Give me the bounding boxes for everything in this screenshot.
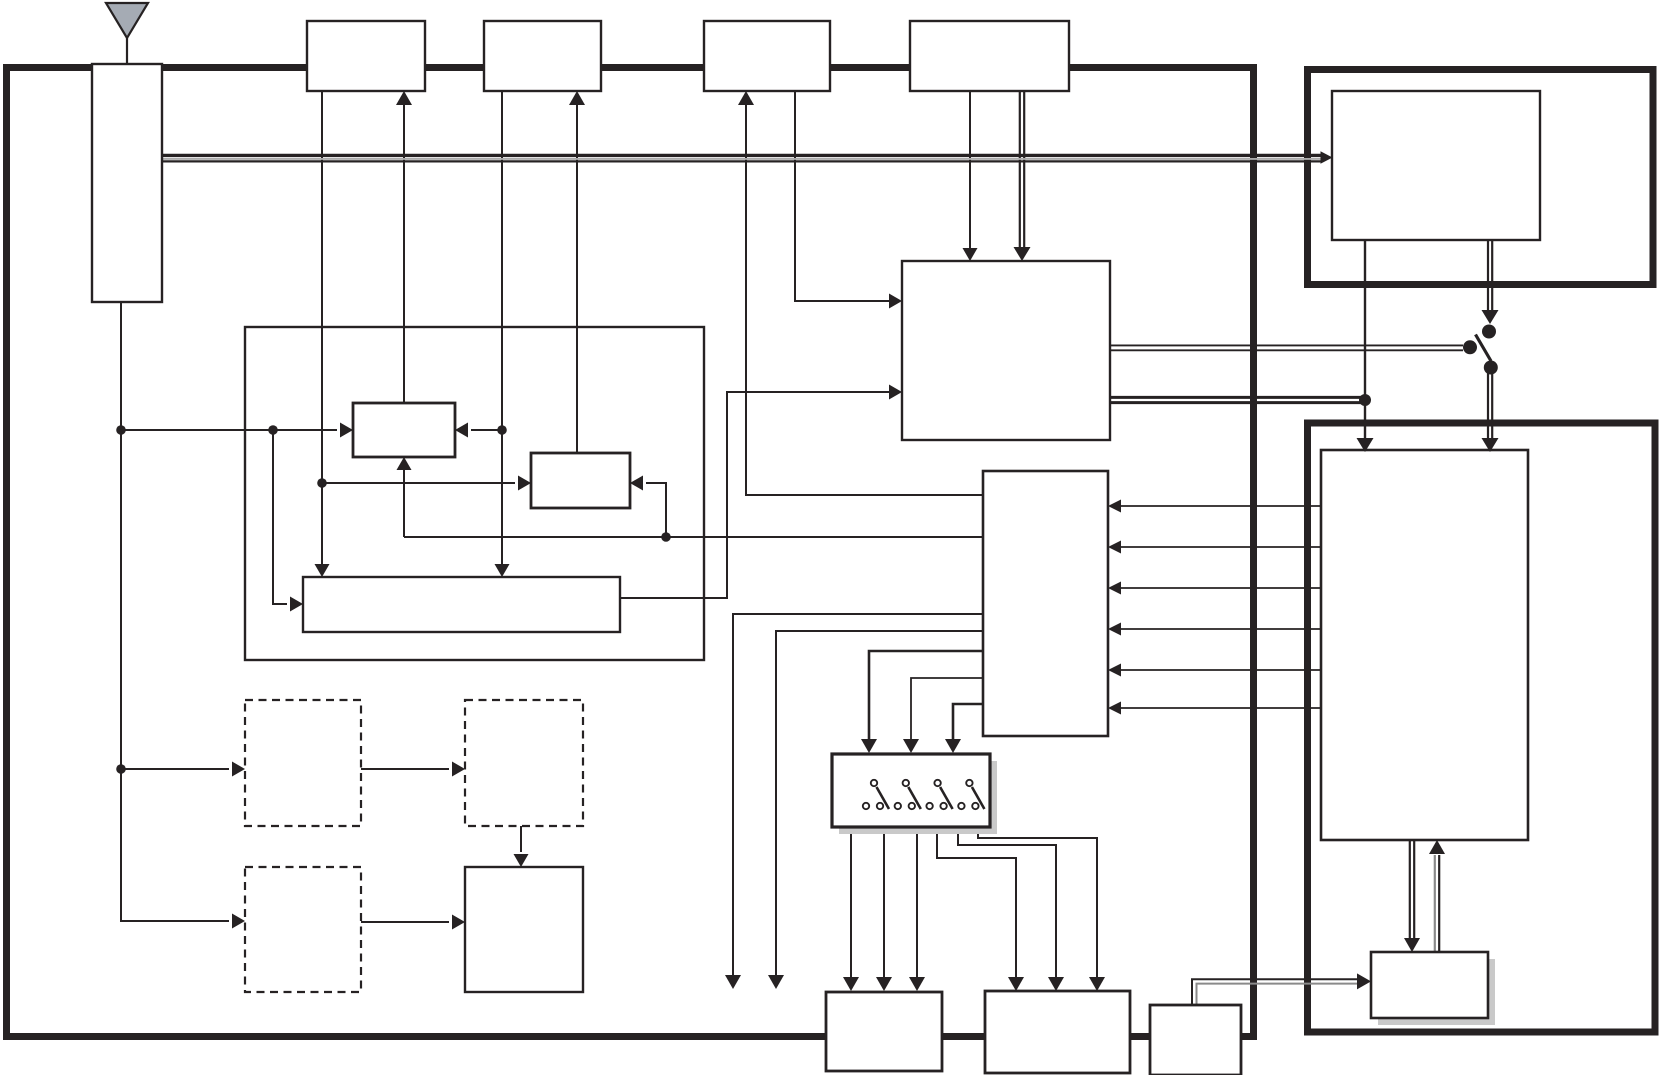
block D1 (dashed) <box>245 700 361 826</box>
arrow into dashed box D2 <box>452 762 465 777</box>
block wide (inner long box) <box>303 577 620 632</box>
arrow into bottom box2 c <box>1089 977 1105 991</box>
arrow into block B1 bottom <box>396 91 412 105</box>
wire main RX bus (double) antenna block to top-right box <box>162 155 1321 161</box>
wire controller out y704 to switch bank <box>953 704 983 741</box>
arrow status line 4 into controller <box>1108 623 1121 636</box>
wire switch bank out 4 elbow <box>937 827 1016 977</box>
wire status line 1 <box>1120 505 1321 507</box>
wire controller out y631 down-left <box>776 631 983 975</box>
arrow into box A right <box>455 423 468 438</box>
wire block B3 down to modem left <box>795 91 889 301</box>
wire duplexer output down-left vertical <box>121 302 229 921</box>
arrow into block B3 bottom <box>738 91 754 105</box>
block B3 (top row) <box>704 21 830 91</box>
junction dot rx split <box>116 425 126 435</box>
block B (inner small box) <box>531 453 630 508</box>
block B4 (top row) <box>910 21 1069 91</box>
block switch bank <box>832 754 990 827</box>
wire interface box up to tall block (double) <box>1435 855 1439 960</box>
wire branch y430 into box A right <box>471 429 502 431</box>
arrow status line 2 into controller <box>1108 541 1121 554</box>
wire horizontal y537 from controller <box>404 536 983 538</box>
block bottom box 2 <box>985 991 1130 1073</box>
switch SPDT bottom contact dot <box>1484 361 1498 375</box>
wire antenna stem <box>126 38 128 66</box>
wire D1 to D2 <box>361 768 449 770</box>
wire modem output thin double y347 to switch <box>1110 345 1463 350</box>
arrow into solid box S left <box>452 915 465 930</box>
arrow into wide box left <box>290 597 303 612</box>
arrow into bottom box1 b <box>876 977 892 991</box>
switch SPDT blade <box>1476 335 1492 362</box>
junction dot x322 y483 <box>317 478 327 488</box>
enclosure bottom-right module (thick frame) <box>1308 423 1656 1032</box>
wire modem output heavy double y400 <box>1110 397 1365 402</box>
wire switch bank out 3 <box>916 827 918 977</box>
wire vertical x1365 top-right box to tall block <box>1364 240 1366 439</box>
switch contacts inside switch bank <box>863 780 985 809</box>
wire branch y483 to box B left <box>322 482 515 484</box>
block controller (narrow tall) <box>983 471 1108 736</box>
enclosure main unit (outer thick frame) <box>7 68 1254 1037</box>
enclosure top-right module (thick frame) <box>1308 70 1654 285</box>
arrow into bottom box1 a <box>843 977 859 991</box>
wire status line 2 <box>1120 546 1321 548</box>
arrow status line 3 into controller <box>1108 582 1121 595</box>
wire top-right box down double to switch <box>1488 240 1492 311</box>
arrow into block B2 bottom <box>569 91 585 105</box>
wire switch bank out 1 <box>850 827 852 977</box>
wire box A up to block B1 <box>403 104 405 403</box>
arrow into solid box S top <box>514 854 529 867</box>
block top-right inner box <box>1332 91 1540 240</box>
arrow above SPDT switch <box>1482 310 1499 324</box>
arrow into box A bottom <box>397 457 412 470</box>
wire status line 4 <box>1120 628 1321 630</box>
block tall (bottom-right inner) <box>1321 450 1528 840</box>
arrow into bottom box2 a <box>1008 977 1024 991</box>
junction dot x666 y537 <box>661 532 671 542</box>
junction dot heavy line x1365 <box>1359 394 1371 406</box>
arrow into modem top x970 <box>963 248 978 261</box>
wire controller out y651 to switch bank <box>869 651 983 741</box>
arrow up into tall block bottom <box>1429 840 1445 854</box>
block A (inner small box) <box>353 403 455 457</box>
arrow into box B left <box>518 476 531 491</box>
wire bottom box 3 to interface box (double) <box>1192 979 1358 1005</box>
wire from block B2 down to wide box <box>501 91 503 564</box>
arrow into dashed box D3 <box>232 914 245 929</box>
arrow into interface box top <box>1404 938 1420 952</box>
junction dot dashed branch <box>116 764 126 774</box>
wire controller to block B3 <box>746 104 983 495</box>
wire block B4 down to modem top <box>969 91 971 248</box>
block B1 (top row) <box>307 21 425 91</box>
arrow controller out x776 end <box>768 975 784 989</box>
arrow into box A left <box>340 423 353 438</box>
wire wide box right to modem left <box>620 392 889 598</box>
wire into box A bottom <box>403 470 405 537</box>
arrow into dashed box D1 <box>232 762 245 777</box>
arrow into modem top x1022 (double line) <box>1014 247 1031 261</box>
wire from block B1 down to wide box <box>321 91 323 564</box>
wire switch down double into tall block <box>1488 367 1492 440</box>
wire branch x273 down to wide box <box>273 430 287 604</box>
block bottom box 1 <box>826 992 942 1071</box>
junction dot x273 <box>268 425 278 435</box>
arrow into bottom box1 c <box>909 977 925 991</box>
wire tall block down to interface box (double) <box>1410 840 1414 940</box>
block switch bank shadow <box>839 761 997 834</box>
arrow into modem left y392 <box>889 385 902 400</box>
wire D3 to solid box S <box>361 921 449 923</box>
wire switch bank out 2 <box>883 827 885 977</box>
arrow into wide box top x322 <box>315 564 330 577</box>
arrow into wide box top x502 <box>495 564 510 577</box>
arrow into bottom box2 b <box>1048 977 1064 991</box>
switch SPDT left contact dot <box>1463 340 1477 354</box>
arrow into switch bank x911 <box>903 739 919 753</box>
block bottom box 3 <box>1150 1005 1241 1075</box>
arrow into box B right <box>630 476 643 491</box>
wire box B up to block B2 <box>576 104 578 453</box>
block antenna duplexer (tall) <box>92 64 162 302</box>
arrow status line 1 into controller <box>1108 500 1121 513</box>
wire status line 3 <box>1120 587 1321 589</box>
arrow into switch bank x869 <box>861 739 877 753</box>
inner sub-block container (thin frame) <box>245 327 704 660</box>
block D2 (dashed) <box>465 700 583 826</box>
wire status line 5 <box>1120 669 1321 671</box>
arrow into modem left y301 <box>889 294 902 309</box>
wire switch bank out 6 elbow <box>978 827 1097 977</box>
block S (solid, below D2) <box>465 867 583 992</box>
wire status line 6 <box>1120 707 1321 709</box>
wire switch bank out 5 elbow <box>958 827 1056 977</box>
wire branch to dashed box D1 <box>121 768 229 770</box>
wire block B4 double line to modem top <box>1020 91 1024 250</box>
arrow status line 6 into controller <box>1108 702 1121 715</box>
block interface shadow <box>1378 959 1495 1025</box>
block interface (bottom-right small) <box>1371 952 1488 1018</box>
block D3 (dashed) <box>245 867 361 992</box>
arrow into interface box left <box>1357 973 1371 989</box>
arrow x1365 into tall block <box>1357 438 1374 452</box>
arrow status line 5 into controller <box>1108 664 1121 677</box>
switch SPDT top contact dot <box>1482 325 1496 339</box>
arrow below SPDT into tall block <box>1482 438 1499 452</box>
arrow RX bus into top-right inner box <box>1321 151 1333 163</box>
block B2 (top row) <box>484 21 601 91</box>
wire controller out y614 down-left <box>733 614 983 975</box>
wire rx split horizontal y430 <box>121 429 337 431</box>
arrow controller out x733 end <box>725 975 741 989</box>
block modem (middle large) <box>902 261 1110 440</box>
wire elbow x666 to box B right <box>646 483 666 537</box>
antenna symbol <box>106 3 148 38</box>
wire D2 down to solid box S <box>520 826 522 852</box>
wire controller out y678 to switch bank <box>911 678 983 741</box>
junction dot x502 y430 <box>497 425 507 435</box>
arrow into switch bank x953 <box>945 739 961 753</box>
